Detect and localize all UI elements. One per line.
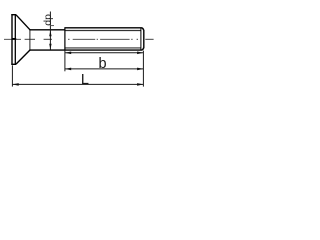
head-shank junction line bbox=[29, 30, 31, 50]
chamfer line at tip bbox=[140, 28, 142, 50]
shank / thread bottom line bbox=[29, 48, 143, 50]
extension line at thread start (b) bbox=[64, 50, 66, 71]
head top edge cap bbox=[11, 14, 16, 16]
dimension line b bbox=[65, 68, 143, 70]
b left arrow bbox=[65, 68, 71, 71]
centerline (screw axis) bbox=[4, 38, 154, 40]
svg-text:L: L bbox=[81, 72, 89, 88]
extension line at tip (b and L) bbox=[142, 51, 144, 87]
head bottom edge cap bbox=[11, 63, 16, 65]
extension line at head face (L) bbox=[11, 65, 13, 86]
thread start full-diameter line bbox=[64, 28, 66, 51]
head face line bbox=[11, 14, 13, 64]
slot groove section mark bbox=[12, 38, 17, 40]
svg-text:b: b bbox=[99, 56, 107, 72]
countersink cone upper edge bbox=[16, 15, 30, 30]
dimension line dp (vertical through shank) bbox=[49, 12, 51, 50]
L right arrow bbox=[137, 83, 143, 86]
thread root top line bbox=[66, 30, 141, 32]
upper aux left arrow bbox=[65, 52, 71, 55]
thread major diameter top line bbox=[64, 28, 143, 30]
b right arrow bbox=[137, 68, 143, 71]
upper aux right arrow bbox=[137, 52, 143, 55]
upper auxiliary dimension line (thread length) bbox=[65, 52, 143, 54]
tip end face bbox=[143, 30, 145, 49]
dimension line L bbox=[12, 83, 143, 85]
label dp (rotated) bbox=[42, 14, 54, 26]
countersink cone lower edge bbox=[16, 50, 30, 64]
slot bottom line bbox=[14, 14, 16, 64]
dp arrow down bbox=[49, 44, 51, 50]
label dp underline tick bbox=[50, 25, 54, 27]
plain shank top line bbox=[29, 29, 65, 31]
L left arrow bbox=[12, 83, 18, 86]
svg-text:dp: dp bbox=[42, 14, 54, 26]
thread root bottom line bbox=[66, 47, 141, 49]
dp arrow up bbox=[49, 30, 51, 36]
